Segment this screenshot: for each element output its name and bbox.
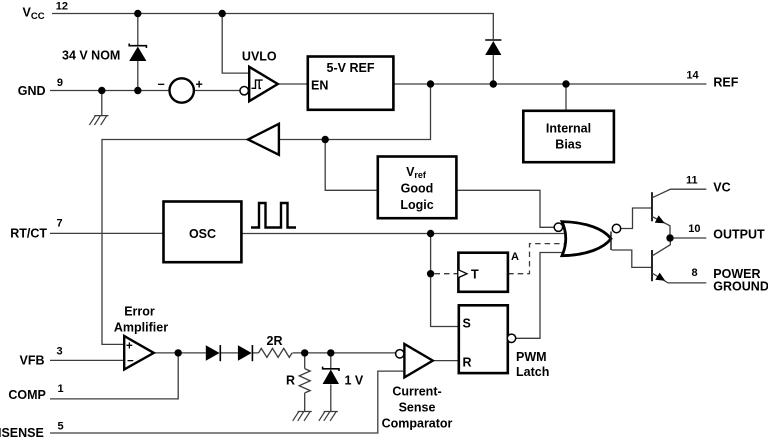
svg-text:REF: REF — [713, 75, 738, 89]
svg-text:2R: 2R — [267, 334, 283, 348]
svg-text:8: 8 — [692, 267, 698, 279]
svg-text:5: 5 — [58, 420, 64, 432]
svg-text:Current-: Current- — [392, 385, 441, 399]
svg-text:9: 9 — [57, 77, 63, 89]
svg-text:14: 14 — [686, 70, 699, 82]
svg-text:1 V: 1 V — [345, 374, 364, 388]
svg-text:PWM: PWM — [516, 350, 547, 364]
svg-text:Error: Error — [124, 305, 155, 319]
svg-text:GND: GND — [18, 84, 46, 98]
svg-text:12: 12 — [56, 1, 68, 13]
svg-text:UVLO: UVLO — [242, 50, 277, 64]
svg-text:3: 3 — [57, 345, 63, 357]
svg-text:+: + — [196, 78, 203, 92]
svg-text:10: 10 — [688, 223, 700, 235]
svg-text:RT/CT: RT/CT — [10, 227, 47, 241]
svg-text:EN: EN — [311, 79, 328, 93]
svg-text:ISENSE: ISENSE — [0, 426, 44, 437]
svg-text:5-V REF: 5-V REF — [327, 61, 375, 75]
svg-text:Internal: Internal — [546, 122, 591, 136]
svg-text:VC: VC — [713, 180, 730, 194]
svg-text:7: 7 — [57, 218, 63, 230]
svg-text:Good: Good — [401, 182, 434, 196]
svg-text:R: R — [463, 356, 472, 370]
svg-text:VFB: VFB — [20, 354, 45, 368]
svg-text:GROUND: GROUND — [713, 279, 768, 293]
svg-text:−: − — [127, 356, 134, 368]
svg-text:A: A — [511, 251, 519, 263]
svg-text:OUTPUT: OUTPUT — [713, 227, 765, 241]
svg-text:34 V NOM: 34 V NOM — [62, 49, 120, 63]
svg-text:Comparator: Comparator — [382, 417, 453, 431]
svg-text:1: 1 — [58, 383, 64, 395]
svg-text:Sense: Sense — [399, 401, 436, 415]
svg-text:COMP: COMP — [8, 388, 46, 402]
svg-text:R: R — [286, 374, 295, 388]
svg-text:+: + — [126, 341, 133, 353]
svg-text:S: S — [463, 317, 471, 331]
svg-text:Logic: Logic — [400, 198, 433, 212]
svg-text:11: 11 — [686, 175, 698, 187]
svg-text:Amplifier: Amplifier — [114, 321, 168, 335]
svg-text:OSC: OSC — [189, 227, 216, 241]
svg-text:Bias: Bias — [555, 138, 581, 152]
svg-text:T: T — [471, 268, 479, 282]
svg-text:−: − — [158, 78, 165, 92]
svg-text:Latch: Latch — [516, 365, 549, 379]
